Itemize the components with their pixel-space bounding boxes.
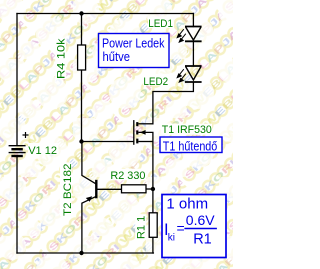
label R2 330 xyxy=(110,169,147,181)
mosfet T1 gate bar xyxy=(133,120,135,145)
comment box T1 hutendo xyxy=(160,137,222,153)
label R1 1 xyxy=(135,214,146,239)
svg-text:T2 BC182: T2 BC182 xyxy=(62,164,74,217)
wire R2 right lead xyxy=(146,188,153,190)
node junction top xyxy=(79,11,83,15)
diode LED2 xyxy=(185,66,202,82)
LED1 light arrows xyxy=(177,29,186,42)
svg-text:LED2: LED2 xyxy=(143,76,168,88)
node junction gate xyxy=(79,139,83,143)
wire gate lead xyxy=(82,141,134,143)
comment box Power Ledek hutve xyxy=(99,34,170,68)
label V1 12 xyxy=(28,143,59,155)
svg-text:R1 1: R1 1 xyxy=(136,216,148,239)
wire LED2 to drain xyxy=(153,82,194,124)
svg-text:ki: ki xyxy=(168,233,175,244)
wire bottom xyxy=(17,252,153,254)
svg-text:1 ohm: 1 ohm xyxy=(166,196,208,213)
svg-text:0.6V: 0.6V xyxy=(186,212,215,228)
svg-text:=: = xyxy=(177,220,185,236)
label T2 BC182 xyxy=(60,163,72,217)
wire source to R2 node xyxy=(152,142,154,190)
svg-text:T1 IRF530: T1 IRF530 xyxy=(162,124,212,136)
mosfet T1 body lead + arrow xyxy=(138,132,153,141)
label LED2 xyxy=(143,74,169,86)
wire LED1-LED2 xyxy=(192,42,194,67)
svg-text:Power Ledek: Power Ledek xyxy=(102,37,165,51)
wire T2 emitter xyxy=(82,197,96,253)
wire R1 bottom lead xyxy=(152,237,154,253)
diode LED1 xyxy=(185,27,202,42)
svg-text:R1: R1 xyxy=(193,232,212,248)
wire left (top to battery) xyxy=(16,14,18,146)
wire top xyxy=(17,13,193,15)
transistor T2 emitter arrow xyxy=(86,196,92,201)
svg-text:R4 10k: R4 10k xyxy=(56,38,68,79)
resistor R1 xyxy=(149,213,157,238)
label R4 10k xyxy=(55,38,66,79)
wire R4 bottom lead xyxy=(81,70,83,142)
comment box formula xyxy=(162,195,226,258)
wire R1 top lead xyxy=(152,189,154,213)
label LED1 xyxy=(148,17,174,29)
wire R4 top lead xyxy=(81,14,83,46)
svg-text:R2 330: R2 330 xyxy=(110,170,145,182)
LED2 light arrows xyxy=(177,69,186,82)
svg-text:hűtve: hűtve xyxy=(103,50,131,64)
resistor R2 xyxy=(122,185,147,193)
mosfet T1 source lead xyxy=(138,141,153,143)
resistor R4 xyxy=(78,45,86,70)
wire left (battery to bottom) xyxy=(16,156,18,253)
svg-text:T1 hűtendő: T1 hűtendő xyxy=(163,139,218,153)
mosfet T1 drain lead xyxy=(138,123,153,125)
wire R2 left lead xyxy=(97,188,121,190)
node junction bottom xyxy=(79,251,83,255)
mosfet T1 channel bars xyxy=(136,122,138,143)
svg-text:LED1: LED1 xyxy=(148,18,173,30)
svg-text:V1 12: V1 12 xyxy=(28,145,57,157)
label T1 IRF530 xyxy=(161,124,212,135)
wire LED1 top lead xyxy=(192,14,194,27)
transistor T2 base bar xyxy=(95,180,97,199)
battery V1 xyxy=(9,132,29,156)
wire T2 collector xyxy=(82,142,96,184)
node junction R2/R1 xyxy=(151,187,155,191)
